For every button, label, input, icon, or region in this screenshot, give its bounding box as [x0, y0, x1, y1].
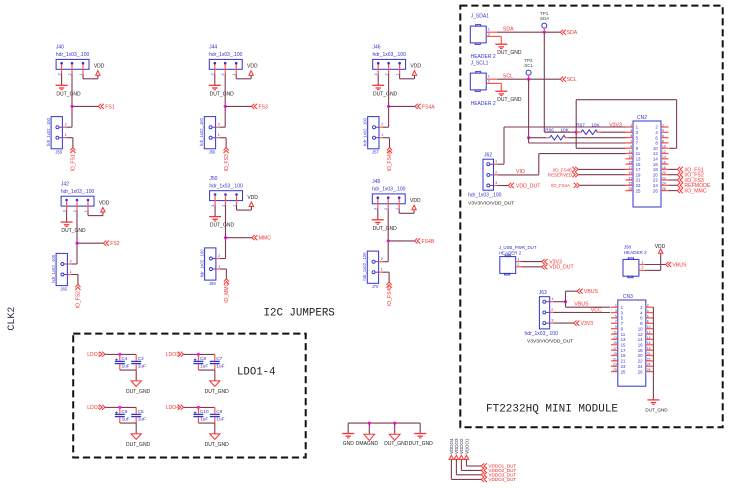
- ground DUT_GND (J42 pin3): [61, 222, 86, 234]
- wire J48 pin1 to VDD: [399, 208, 414, 213]
- svg-text:15: 15: [621, 343, 626, 348]
- flag LDO4 (source): [166, 405, 184, 412]
- CN2 pin 11: [626, 150, 641, 156]
- svg-text:CN3: CN3: [623, 294, 633, 300]
- svg-text:CN2: CN2: [637, 115, 647, 121]
- svg-text:23: 23: [636, 183, 641, 188]
- wire J55 pin1 to flag IO_FS1: [66, 138, 73, 148]
- svg-text:19: 19: [636, 172, 641, 177]
- svg-text:HEADER 2: HEADER 2: [471, 101, 496, 107]
- flag VDDO2_DUT: [481, 468, 516, 473]
- flag FS2: [103, 241, 120, 248]
- svg-text:FT2232HQ MINI MODULE: FT2232HQ MINI MODULE: [486, 403, 618, 415]
- svg-text:HEADER 2: HEADER 2: [624, 250, 647, 255]
- svg-text:hdr_1x02_.100: hdr_1x02_.100: [46, 117, 51, 146]
- CN3 pin 5: [611, 314, 624, 320]
- ground DUT_GND (J44 pin3): [209, 85, 234, 97]
- svg-text:2: 2: [218, 123, 220, 127]
- svg-text:1uF: 1uF: [216, 363, 224, 368]
- CN2 pin 5: [626, 134, 639, 140]
- svg-text:LDO4: LDO4: [166, 405, 179, 411]
- CN2 pin 25: [626, 187, 642, 193]
- svg-text:5: 5: [630, 134, 632, 138]
- wire J58 pin2 to VDD: [639, 253, 661, 270]
- CN2 pin 12: [653, 150, 669, 156]
- svg-text:DUT_GND: DUT_GND: [497, 97, 522, 103]
- svg-text:hdr_1x03_.100: hdr_1x03_.100: [61, 189, 95, 195]
- svg-text:21: 21: [621, 359, 626, 364]
- svg-text:C7: C7: [216, 356, 222, 361]
- connector CN2: [633, 115, 661, 207]
- ground GND (earth): [342, 434, 354, 448]
- svg-text:C4: C4: [121, 356, 127, 361]
- wire junction to flag FS2: [77, 242, 103, 244]
- svg-text:22: 22: [647, 357, 651, 361]
- connector J48 (hdr_1x03_.100): [372, 179, 406, 210]
- flag LDO3 (source): [166, 352, 184, 359]
- svg-text:VDD: VDD: [99, 200, 110, 206]
- wire junction to flag FS4B: [388, 240, 414, 242]
- svg-text:DUT_GND: DUT_GND: [210, 91, 235, 97]
- svg-text:3: 3: [551, 319, 553, 323]
- svg-text:IO_FS1: IO_FS1: [71, 154, 77, 171]
- svg-text:13: 13: [613, 336, 617, 340]
- wire junction to flag FS4A: [389, 105, 415, 107]
- svg-text:1: 1: [381, 133, 383, 137]
- ground DMAGND (open triangle): [356, 434, 379, 447]
- svg-text:VBUS: VBUS: [584, 289, 599, 295]
- CN3 pin 26 (to ground bus): [638, 368, 654, 374]
- flag VDDO4_DUT: [481, 477, 516, 482]
- svg-text:J42: J42: [61, 181, 69, 187]
- svg-text:V3V3/VIO/VDD_DUT: V3V3/VIO/VDD_DUT: [527, 339, 573, 345]
- CN3 pin 9: [611, 325, 624, 331]
- svg-text:DUT_GND: DUT_GND: [373, 91, 398, 97]
- svg-text:25: 25: [636, 188, 641, 193]
- capacitor C10 (polarized): [193, 407, 209, 423]
- wire J48 pin2 down to junction and 2-pin header: [383, 208, 389, 262]
- power VDD (J46): [410, 64, 421, 76]
- svg-text:FS4B: FS4B: [422, 239, 435, 245]
- svg-text:IO_FS3: IO_FS3: [224, 154, 230, 171]
- svg-text:1: 1: [218, 133, 220, 137]
- flag IO_FS4B: [387, 282, 393, 306]
- wire J40 pin3 to ground: [61, 74, 63, 85]
- wire J46 pin2 down to junction and 2-pin header: [383, 74, 389, 128]
- svg-text:8: 8: [662, 139, 664, 143]
- ground DUT_GND (LDO4): [205, 434, 230, 448]
- junction VBUS: [564, 300, 567, 303]
- svg-text:1uF: 1uF: [138, 416, 146, 421]
- connector J40 (hdr_1x03_.100): [56, 45, 90, 76]
- svg-text:11: 11: [629, 150, 633, 154]
- CN3 pin 24 (to ground bus): [638, 363, 654, 369]
- svg-text:1: 1: [551, 297, 553, 301]
- svg-text:R66: R66: [545, 127, 554, 132]
- svg-text:15: 15: [636, 162, 641, 167]
- svg-text:2: 2: [73, 210, 77, 212]
- svg-text:VDDO4: VDDO4: [449, 438, 454, 454]
- CN2 pin 22: [653, 176, 669, 182]
- svg-text:13: 13: [621, 337, 626, 342]
- CN3 pin 1: [611, 304, 624, 310]
- svg-text:DUT_GND: DUT_GND: [210, 223, 235, 229]
- CN3 pin 7: [611, 320, 624, 326]
- svg-text:2: 2: [642, 266, 644, 270]
- svg-text:7: 7: [615, 320, 617, 324]
- connector J_USB_PWR_DUT (HEADER 2): [499, 245, 537, 275]
- svg-text:24: 24: [647, 363, 651, 367]
- ground DUT_GND (earth): [409, 434, 434, 448]
- svg-text:VDD: VDD: [410, 198, 421, 204]
- junction at FS1 tap: [70, 105, 73, 108]
- svg-text:DMAGND: DMAGND: [356, 441, 379, 447]
- svg-text:1: 1: [79, 73, 83, 75]
- svg-text:DUT_GND: DUT_GND: [205, 389, 230, 395]
- flag FS4A: [415, 104, 435, 111]
- svg-text:14: 14: [662, 155, 666, 159]
- CN3 pin 25: [611, 368, 626, 374]
- junction at FS4A tap: [387, 105, 390, 108]
- wire VDDO1 to flag VDDO1_DUT: [467, 459, 482, 466]
- CN3 pin 13: [611, 336, 626, 342]
- svg-text:VDD: VDD: [247, 64, 258, 70]
- connector J_SCL1 (HEADER 2): [470, 61, 496, 107]
- power VDD (J42): [99, 200, 110, 212]
- wire J42 pin1 to VDD: [88, 211, 103, 216]
- wire SCL to CN2 pin7: [529, 138, 626, 143]
- svg-text:2: 2: [381, 123, 383, 127]
- svg-text:DUT_GND: DUT_GND: [205, 442, 230, 448]
- svg-text:21: 21: [629, 176, 633, 180]
- svg-text:J62: J62: [484, 152, 492, 158]
- capacitor C4 (polarized): [115, 354, 130, 370]
- flag LDO1 (source): [87, 352, 105, 359]
- capacitor C8 (polarized): [193, 354, 208, 370]
- wire LDO3 to caps: [184, 353, 215, 355]
- wire J63 pin3 to flag V3V3: [554, 322, 574, 324]
- svg-text:12: 12: [662, 150, 666, 154]
- svg-text:DUT_GND: DUT_GND: [126, 389, 151, 395]
- svg-text:VDDO2: VDDO2: [459, 438, 464, 454]
- wire CN2 pin24 to flag REFMODE: [669, 184, 678, 186]
- connector J44 (hdr_1x03_.100): [209, 45, 243, 76]
- ground DUT_GND (CN3): [645, 400, 668, 413]
- svg-text:SDA: SDA: [503, 27, 514, 33]
- wire junction to flag FS1: [72, 105, 98, 107]
- wire VBUS junction up to flag: [566, 291, 578, 302]
- connector J42 (hdr_1x03_.100): [61, 181, 95, 212]
- capacitor C6 (polarized): [115, 407, 130, 423]
- wire CN2 pin22 to flag I/O_FS3: [669, 179, 678, 181]
- wire J58 pin1 to flag VBUS: [639, 264, 666, 266]
- wire SDA vertical to R67 junction: [544, 32, 576, 132]
- CN2 pin 1: [626, 123, 639, 129]
- CN3 pin 21: [611, 357, 626, 363]
- svg-text:16: 16: [653, 162, 658, 167]
- CN3 pin 14 (to ground bus): [638, 336, 654, 342]
- wire J63 pin1 to VBUS junction: [554, 301, 566, 303]
- power VDDO2 (up arrow, rotated label): [459, 438, 464, 459]
- svg-text:hdr_1x03_.100: hdr_1x03_.100: [468, 193, 502, 199]
- wire LDO4 to caps: [184, 406, 215, 408]
- svg-text:J70: J70: [372, 284, 379, 289]
- wire junction to flag MMC: [226, 237, 252, 239]
- CN2 pin 20: [653, 171, 669, 177]
- connector J50 (hdr_1x03_.100): [209, 176, 243, 207]
- svg-text:3: 3: [211, 73, 215, 75]
- flag VDD_DUT (J_USB_PWR_DUT): [542, 264, 575, 271]
- flag I/O_FS2: [677, 172, 704, 179]
- CN3 pin 15: [611, 341, 626, 347]
- svg-text:8: 8: [647, 320, 649, 324]
- svg-text:C8: C8: [200, 356, 206, 361]
- resistor R66 10K: [529, 127, 626, 140]
- junction at FS4B tap: [387, 239, 390, 242]
- svg-text:21: 21: [613, 357, 617, 361]
- ground DUT_GND (J40 pin3): [56, 85, 81, 97]
- svg-text:20: 20: [638, 353, 643, 358]
- svg-text:LDO3: LDO3: [166, 352, 179, 358]
- svg-text:hdr_1x02_.100: hdr_1x02_.100: [199, 117, 204, 146]
- svg-text:3: 3: [374, 73, 378, 75]
- power VDDO3 (up arrow, rotated label): [454, 438, 459, 459]
- wire J62 pin1 to CN2 pin1 (V3V3): [498, 127, 626, 164]
- junction LDO4: [197, 406, 200, 409]
- wire SDA to CN2 pin9: [576, 147, 625, 149]
- junction at FS2 tap: [75, 242, 78, 245]
- svg-text:10: 10: [638, 326, 643, 331]
- CN2 pin 13: [626, 155, 642, 161]
- flag IO_FS4A: [387, 148, 393, 172]
- CN2 pin 15: [626, 161, 642, 167]
- svg-text:GND: GND: [343, 441, 355, 447]
- wire cap bottoms to ground (LDO2): [120, 423, 136, 434]
- svg-text:16: 16: [638, 343, 643, 348]
- CN2 pin 14: [653, 155, 669, 161]
- svg-text:19: 19: [613, 352, 617, 356]
- flag LDO2 (source): [87, 405, 105, 412]
- svg-text:J_SCL1: J_SCL1: [471, 61, 489, 67]
- svg-text:2: 2: [384, 208, 388, 210]
- svg-text:1: 1: [232, 73, 236, 75]
- wire J50 pin3 to ground: [214, 205, 216, 216]
- svg-text:10: 10: [653, 146, 658, 151]
- wire J46 pin1 to VDD: [400, 74, 415, 79]
- svg-text:5: 5: [615, 314, 617, 318]
- svg-text:24: 24: [662, 182, 666, 186]
- CN2 pin 6: [655, 134, 668, 140]
- svg-text:22: 22: [653, 178, 658, 183]
- svg-text:14: 14: [653, 157, 658, 162]
- junction DMAGND: [368, 422, 371, 425]
- CN3 pin 6 (to ground bus): [640, 314, 653, 320]
- ground DUT_GND (LDO2): [126, 434, 151, 448]
- CN2 pin 9: [626, 145, 639, 151]
- junction at FS3 tap: [224, 105, 227, 108]
- svg-text:SDA: SDA: [540, 16, 550, 21]
- svg-text:C3: C3: [138, 356, 144, 361]
- svg-text:IO_MMC: IO_MMC: [224, 282, 230, 302]
- connector J59 (hdr_1x02_.100): [199, 248, 220, 286]
- wire drop to DMAGND: [368, 423, 370, 434]
- svg-text:20: 20: [662, 171, 666, 175]
- svg-text:J44: J44: [209, 45, 217, 51]
- svg-text:FS4A: FS4A: [422, 104, 435, 110]
- junction LDO1: [118, 353, 121, 356]
- svg-text:1uF: 1uF: [138, 363, 146, 368]
- svg-text:24: 24: [638, 364, 643, 369]
- ground DUT_GND (J_SCL1): [495, 91, 522, 103]
- capacitor C9: [210, 407, 225, 423]
- svg-text:LDO2: LDO2: [87, 405, 100, 411]
- svg-text:J50: J50: [209, 176, 217, 182]
- flag VDDO3_DUT: [481, 472, 516, 477]
- flag VDDO1_DUT: [481, 463, 516, 468]
- wire J_SCL1 pin2 to ground: [486, 83, 501, 91]
- svg-text:13: 13: [636, 157, 641, 162]
- svg-text:C9: C9: [216, 409, 222, 414]
- CN2 pin 16: [653, 161, 669, 167]
- junction SDA: [543, 31, 546, 34]
- svg-text:1uF: 1uF: [122, 363, 130, 368]
- wire J70 pin1 to flag IO_FS4B: [383, 272, 390, 282]
- svg-text:20: 20: [647, 352, 651, 356]
- junction LDO3: [197, 353, 200, 356]
- svg-text:2: 2: [662, 123, 664, 127]
- svg-text:J57: J57: [372, 150, 379, 155]
- svg-text:17: 17: [636, 167, 641, 172]
- svg-text:J_USB_PWR_DUT: J_USB_PWR_DUT: [499, 245, 537, 250]
- svg-text:VDD_DUT: VDD_DUT: [549, 265, 574, 271]
- connector J65 (hdr_1x02_.100): [51, 253, 72, 291]
- svg-text:I2C JUMPERS: I2C JUMPERS: [264, 308, 335, 320]
- flag SDA: [560, 30, 578, 37]
- wire J50 pin2 down to junction and 2-pin header: [220, 205, 226, 259]
- wire junction to flag FS3: [225, 105, 251, 107]
- svg-text:18: 18: [662, 166, 666, 170]
- svg-text:1: 1: [65, 133, 67, 137]
- CN3 pin 20 (to ground bus): [638, 352, 654, 358]
- wire VDDO4 to flag VDDO4_DUT: [451, 459, 481, 479]
- svg-text:18: 18: [653, 167, 658, 172]
- svg-text:9: 9: [615, 325, 617, 329]
- svg-text:21: 21: [636, 178, 641, 183]
- svg-text:3: 3: [374, 208, 378, 210]
- CN3 pin 17: [611, 347, 626, 353]
- ground DUT_GND (open triangle): [384, 434, 409, 447]
- junction LDO2: [118, 406, 121, 409]
- svg-text:1: 1: [615, 304, 617, 308]
- wire J46 pin3 to ground: [377, 74, 379, 85]
- wire VDDO3 to flag VDDO3_DUT: [456, 459, 481, 474]
- svg-text:2: 2: [65, 123, 67, 127]
- svg-text:2: 2: [218, 254, 220, 258]
- svg-text:4: 4: [647, 309, 649, 313]
- power VDD (J58): [655, 244, 666, 253]
- junction SCL: [527, 78, 530, 81]
- svg-text:16: 16: [662, 161, 666, 165]
- svg-text:17: 17: [613, 347, 617, 351]
- svg-text:1: 1: [232, 205, 236, 207]
- wire CN3 ground bus: [652, 307, 654, 399]
- power VDD (J50): [247, 195, 258, 207]
- wire SCL vertical: [528, 79, 530, 138]
- ground DUT_GND (J_SDA1): [495, 44, 522, 56]
- wire CN2 pin18 to flag I/O_FS1: [669, 168, 678, 170]
- svg-text:VDDO3: VDDO3: [454, 438, 459, 454]
- wire VDDO2 to flag VDDO2_DUT: [461, 459, 481, 470]
- wire LDO1 to caps: [105, 353, 136, 355]
- CN2 pin 23: [626, 182, 642, 188]
- connector CN3: [618, 294, 646, 386]
- svg-text:1: 1: [395, 208, 399, 210]
- ground DUT_GND (J46 pin3): [372, 85, 397, 97]
- dashed box LDO1-4: [73, 334, 306, 458]
- svg-text:26: 26: [653, 188, 658, 193]
- connector J63 (hdr_1x03_.100): [525, 290, 574, 345]
- svg-text:hdr_1x03_.100: hdr_1x03_.100: [209, 184, 243, 190]
- svg-text:J_SDA1: J_SDA1: [471, 14, 490, 20]
- wire drop to DUT_GND: [394, 423, 396, 434]
- svg-text:J58: J58: [624, 245, 632, 250]
- svg-text:22: 22: [662, 176, 666, 180]
- svg-text:J63: J63: [539, 290, 547, 296]
- svg-text:VDD: VDD: [410, 64, 421, 70]
- svg-text:1: 1: [395, 73, 399, 75]
- CN3 pin 23: [611, 363, 626, 369]
- CN2 pin 17: [626, 166, 642, 172]
- svg-text:2: 2: [384, 73, 388, 75]
- power VDDO1 (up arrow, rotated label): [464, 438, 469, 459]
- svg-text:1: 1: [488, 75, 490, 79]
- connector J55 (hdr_1x02_.100): [46, 117, 67, 155]
- flag I/O_FS3: [677, 177, 704, 184]
- svg-text:15: 15: [629, 161, 633, 165]
- testpoint TP1: [540, 11, 550, 32]
- CN2 pin 4: [655, 129, 668, 135]
- svg-text:FS1: FS1: [105, 104, 115, 110]
- wire J40 pin2 down to junction and 2-pin header: [66, 74, 72, 128]
- svg-text:6: 6: [662, 134, 664, 138]
- svg-text:VDD: VDD: [94, 64, 105, 70]
- wire drop to DUT_GND (earth): [419, 423, 421, 433]
- svg-text:FS2: FS2: [110, 241, 120, 247]
- svg-text:2: 2: [495, 170, 497, 174]
- svg-text:15: 15: [613, 341, 617, 345]
- connector J46 (hdr_1x03_.100): [373, 45, 407, 76]
- svg-text:J46: J46: [373, 45, 381, 51]
- svg-text:25: 25: [613, 368, 617, 372]
- svg-text:2: 2: [221, 205, 225, 207]
- CN3 pin 10 (to ground bus): [638, 325, 654, 331]
- svg-text:IO_FS2: IO_FS2: [76, 291, 82, 308]
- wire cap bottoms to ground (LDO3): [198, 370, 214, 381]
- CN3 pin 12 (to ground bus): [638, 330, 654, 336]
- svg-text:RESERVED: RESERVED: [548, 173, 572, 178]
- CN3 pin 8 (to ground bus): [640, 320, 653, 326]
- wire J_USB_PWR_DUT pin2 to flag VDD_DUT: [516, 266, 542, 268]
- svg-text:DUT_GND: DUT_GND: [373, 226, 398, 232]
- junction DUT_GND: [393, 422, 396, 425]
- connector J57 (hdr_1x02_.100): [362, 117, 383, 155]
- svg-text:IO_FS4A: IO_FS4A: [387, 150, 393, 171]
- capacitor C3: [131, 354, 146, 370]
- ground DUT_GND (LDO3): [205, 381, 230, 395]
- svg-text:C10: C10: [200, 409, 209, 414]
- svg-text:12: 12: [653, 151, 658, 156]
- svg-text:2: 2: [551, 308, 553, 312]
